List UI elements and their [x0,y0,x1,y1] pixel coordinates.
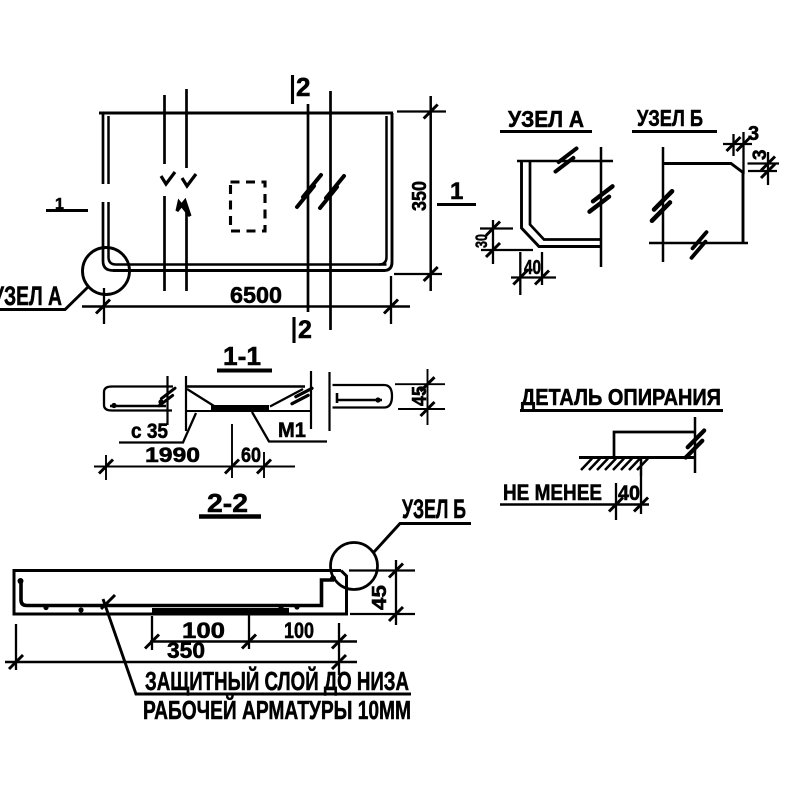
support detail lightning [682,430,707,457]
svg-text:1: 1 [55,196,64,213]
section 1-1 left piece rebar [110,405,166,408]
slab plan bottom edge inner [116,263,380,266]
section 1-1 right piece rebar dot [375,397,380,402]
svg-text:РАБОЧЕЙ АРМАТУРЫ 10ММ: РАБОЧЕЙ АРМАТУРЫ 10ММ [143,695,411,725]
svg-text:УЗЕЛ А: УЗЕЛ А [508,106,584,132]
section 1-1 middle piece bottom line [186,410,311,412]
section 1-1 left piece rebar dot 2 [158,399,163,404]
svg-text:УЗЕЛ Б: УЗЕЛ Б [402,494,466,524]
svg-text:3: 3 [748,123,759,145]
svg-text:М1: М1 [278,419,306,442]
section 2-2 dimension 45 [349,560,415,625]
svg-text:350: 350 [409,181,431,211]
svg-text:ЗАЩИТНЫЙ СЛОЙ ДО НИЗА: ЗАЩИТНЫЙ СЛОЙ ДО НИЗА [145,666,409,696]
slab plan bottom edge outer [113,269,385,272]
svg-text:ДЕТАЛЬ ОПИРАНИЯ: ДЕТАЛЬ ОПИРАНИЯ [521,384,721,410]
section mark 2 bottom [294,316,312,344]
detail B left line [662,147,665,262]
section 1-1 right piece outline [333,385,393,408]
section 1-1 left piece end bolt [159,388,175,406]
svg-text:100: 100 [284,618,314,643]
support detail bearing surface [579,456,695,459]
svg-text:УЗЕЛ Б: УЗЕЛ Б [637,105,703,131]
svg-text:40: 40 [524,257,541,279]
support detail support edge [640,458,643,477]
section mark 1 left [46,196,88,213]
section 2-2 dimension 100 100 [145,615,357,675]
svg-text:1-1: 1-1 [223,341,261,371]
section mark 2 top [293,72,311,104]
detail A dimension 40 [511,252,556,295]
slab plan right edge outer [384,113,392,271]
dimension 350 plan right [394,96,446,291]
detail A top line [517,160,613,163]
section 2-2 note leader [103,599,411,694]
section 1-1 label M1 [252,412,327,442]
detail B bottom line [649,242,748,245]
detail A title [500,106,592,132]
svg-text:с 35: с 35 [131,420,168,443]
svg-text:30: 30 [472,234,491,248]
detail B lightning left [648,191,675,220]
section 2-2 rebar dots [43,605,48,610]
section 2-2 tray outer outline [14,571,347,615]
svg-text:2: 2 [298,316,312,344]
svg-text:3: 3 [750,149,771,160]
rebar hook mark 2 [182,174,196,186]
section 1-1 middle piece right end bolt [292,385,312,406]
svg-text:УЗЕЛ А: УЗЕЛ А [0,281,62,311]
node A callout circle [83,248,130,295]
detail B dimension 3 horizontal [723,123,759,174]
detail A wall inner line [530,162,601,240]
section 1-1 middle piece left slope [187,389,214,406]
svg-text:45: 45 [409,386,431,406]
break line pair 2 right [329,91,332,330]
detail A lightning right [590,186,613,211]
detail A dimension 30 [472,220,533,264]
node B callout label [374,494,471,552]
section 1-1 right piece rebar hook [336,393,339,403]
section 2-2 tray inner surface [21,579,334,606]
detail B dimension 3 vertical [748,149,780,185]
section 1-1 title [217,341,272,371]
rebar arrow mark [177,201,190,216]
svg-text:2: 2 [296,72,310,102]
support detail slab rectangle [614,432,695,458]
break line pair 2 left [307,104,310,312]
section 2-2 dimension 350 [5,624,357,670]
dimension 6500 [82,276,410,324]
section 1-1 middle piece right slope [270,389,303,407]
section 1-1 label c35 [119,413,196,443]
break line pair 1 left [163,95,166,291]
rebar lightning mark in plan left [297,175,321,207]
svg-text:1990: 1990 [145,444,200,467]
support detail dimension 40 [500,476,649,520]
svg-text:40: 40 [618,482,640,505]
dashed opening in plan [231,182,266,231]
section 1-1 dimensions 1990 and 60 [94,424,295,480]
rebar hook mark 1 [161,172,175,184]
section 2-2 note leader tick [101,595,115,609]
svg-text:2-2: 2-2 [207,488,248,518]
svg-text:1: 1 [450,178,463,205]
section 1-1 right piece rebar [336,399,382,402]
break line pair 1 right [185,89,188,291]
detail B title [632,105,717,132]
svg-text:350: 350 [167,638,205,663]
section 1-1 left piece outline [104,387,173,411]
detail A right line [600,147,603,267]
svg-text:60: 60 [241,444,261,467]
slab plan bottom-right inner corner join [380,263,387,266]
node B callout circle [331,543,378,590]
svg-text:НЕ МЕНЕЕ: НЕ МЕНЕЕ [503,480,602,505]
slab plan left edge inner (with gap) [109,116,117,265]
support detail hatching [581,459,648,471]
section 2-2 inner lip blobs [18,578,24,584]
section 1-1 dimension 45 [395,369,445,425]
detail A wall outer line [522,161,602,247]
rebar lightning mark in plan right [320,176,344,208]
detail B top edge with chamfer and right wall [663,164,743,244]
svg-text:45: 45 [369,585,391,610]
section 1-1 left piece rebar dots [111,403,116,408]
support detail title [520,384,723,411]
slab plan top edge [99,111,393,114]
section 2-2 title [199,488,261,518]
svg-text:6500: 6500 [230,282,282,308]
detail B lightning bottom [687,232,711,258]
section 1-1 break pair right [311,371,330,431]
section 1-1 middle piece top [186,385,305,388]
support detail slab right break line [694,417,697,473]
slab plan right edge inner [379,116,387,265]
section 2-2 mesh M1 [152,608,289,613]
section mark 1 right [437,178,476,205]
node A callout label [0,281,88,311]
section 1-1 break pair left [168,376,187,431]
section 1-1 middle piece floor [211,405,269,410]
slab plan left edge outer (with gap) [103,113,113,271]
detail A lightning top [556,148,577,171]
